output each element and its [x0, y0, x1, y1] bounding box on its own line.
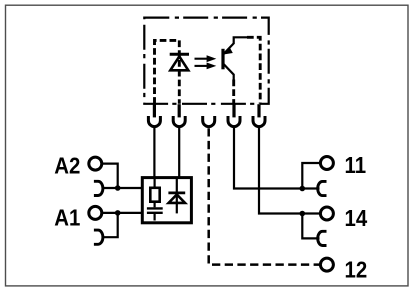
- junction node A1: [115, 210, 121, 216]
- plug contact pin 1: [153, 104, 156, 117]
- resistor R1: [150, 188, 159, 202]
- wire A2 hook to input box: [104, 187, 143, 189]
- svg-text:11: 11: [345, 152, 367, 179]
- resistor R1 lead top: [154, 178, 156, 188]
- light arrow 1: [195, 55, 217, 62]
- terminal 12 circle: [320, 258, 333, 271]
- diode D2 lead (vertical through): [176, 178, 178, 214]
- plug contact socket 5: [253, 116, 265, 127]
- phototransistor Q1 emitter diagonal with arrow: [224, 43, 234, 54]
- svg-text:12: 12: [345, 256, 368, 283]
- label 14: [345, 205, 368, 232]
- wire node to terminal 14 circle: [302, 212, 320, 214]
- wire R1 to C1: [154, 202, 156, 208]
- wire socket2 to input box: [178, 127, 180, 176]
- wire emitter to top (solid): [234, 37, 247, 44]
- phototransistor Q1 collector diagonal: [224, 64, 234, 79]
- wire LED cathode loop (dashed): [155, 40, 180, 103]
- optocoupler LED D1 triangle: [170, 56, 188, 70]
- wire socket4 to node 11: [234, 127, 302, 188]
- label A1: [54, 204, 80, 231]
- plug contact pin 2: [178, 104, 181, 117]
- terminal A2 circle: [89, 157, 102, 170]
- wire socket5 to node 14: [259, 127, 302, 213]
- wire node to terminal 11 circle: [302, 163, 320, 189]
- wire A2 circle to junction: [102, 164, 118, 188]
- diode D2 cathode bar: [168, 191, 185, 194]
- relay module outline (dash-dot box): [144, 18, 268, 104]
- plug contact socket 2: [173, 116, 185, 127]
- capacitor C1 top plate: [147, 207, 163, 209]
- wire node to hook 14: [302, 214, 319, 239]
- plug contact socket 1: [148, 116, 160, 127]
- plug contact socket 3: [203, 116, 215, 127]
- terminal 14 hook: [318, 231, 327, 245]
- phototransistor Q1 base bar: [221, 49, 224, 70]
- terminal 11 circle: [320, 157, 333, 170]
- svg-text:14: 14: [345, 205, 368, 232]
- wire emitter top to right edge (dashed): [247, 37, 260, 104]
- optocoupler LED D1 cathode bar: [170, 53, 189, 56]
- capacitor C1 lead bottom: [154, 214, 156, 221]
- wire A1 circle to input box: [102, 212, 142, 214]
- junction node 14: [300, 211, 306, 217]
- diode D2 triangle: [169, 195, 185, 203]
- terminal 11 hook: [318, 181, 327, 195]
- label 11: [345, 152, 367, 179]
- light arrow 2: [195, 63, 217, 70]
- input circuit box: [142, 178, 191, 223]
- junction node A2: [115, 185, 121, 191]
- wire collector down (dashed): [232, 80, 235, 104]
- capacitor C1 bottom plate: [147, 212, 163, 214]
- junction node 11: [300, 186, 306, 192]
- plug contact pin 4: [232, 104, 235, 117]
- plug contact pin 5: [257, 104, 260, 117]
- wire LED anode (dashed vertical): [178, 40, 181, 103]
- label 12: [345, 256, 368, 283]
- svg-text:A1: A1: [54, 204, 80, 231]
- wire A1 hook to junction: [104, 213, 118, 237]
- wire socket1 to input box: [153, 127, 155, 176]
- terminal 14 circle: [320, 207, 333, 220]
- wire socket3 to terminal 12 (dashed): [209, 128, 320, 264]
- wire node to hook 11: [302, 187, 319, 189]
- terminal A1 circle: [89, 206, 102, 219]
- terminal A1 hook: [94, 230, 103, 244]
- svg-text:A2: A2: [54, 152, 80, 179]
- plug contact socket 4: [228, 116, 240, 127]
- label A2: [54, 152, 80, 179]
- terminal A2 hook: [94, 181, 103, 195]
